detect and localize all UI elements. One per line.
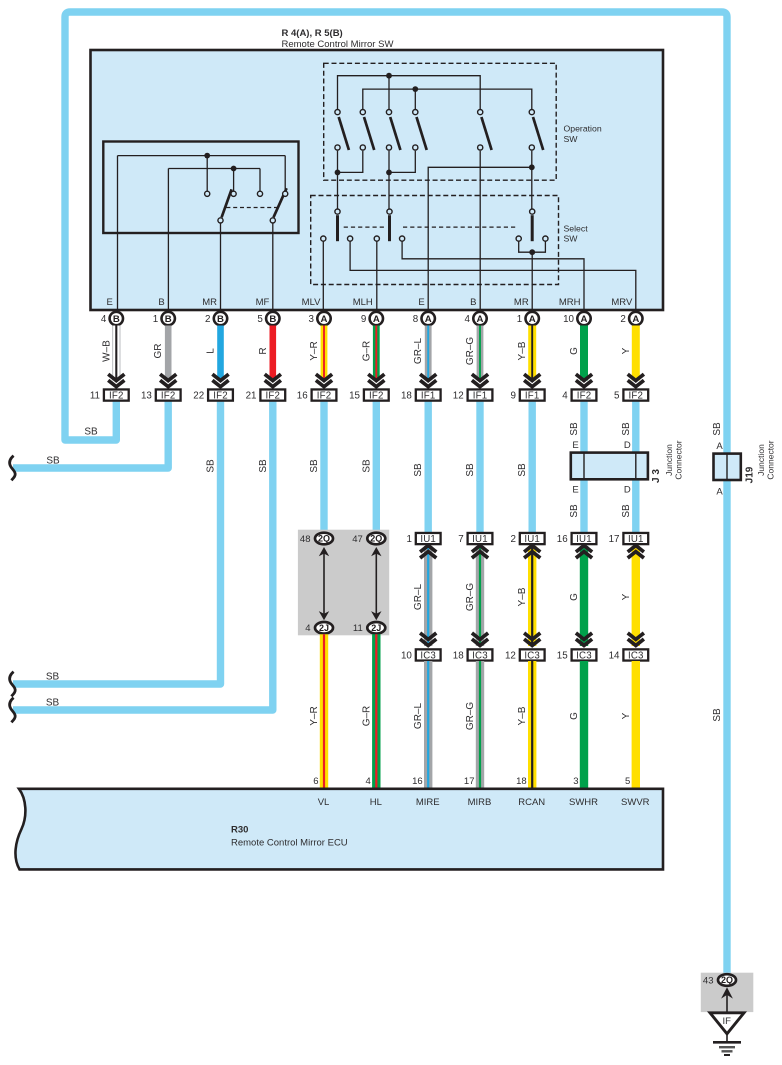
- connector arrow (chevron) into IF box: [108, 374, 124, 387]
- svg-text:MR: MR: [202, 297, 217, 308]
- select SW lower contact: [374, 236, 379, 241]
- svg-text:MRV: MRV: [611, 297, 633, 308]
- svg-text:2Q: 2Q: [721, 975, 733, 985]
- svg-text:HL: HL: [370, 797, 382, 808]
- svg-text:A: A: [632, 314, 639, 325]
- svg-text:A: A: [477, 314, 484, 325]
- contact point: [205, 191, 210, 196]
- svg-text:18: 18: [401, 391, 412, 402]
- wire SB from J3 pin E to IU1 pin 16: [580, 478, 587, 533]
- svg-text:IC3: IC3: [628, 650, 644, 661]
- svg-text:GR–G: GR–G: [465, 583, 476, 612]
- svg-text:2Q: 2Q: [370, 534, 382, 544]
- svg-text:47: 47: [352, 534, 363, 545]
- select SW lever 2 (vertical): [388, 215, 391, 241]
- svg-text:4: 4: [366, 776, 371, 787]
- svg-text:Operation: Operation: [564, 124, 602, 134]
- svg-text:MR: MR: [514, 297, 529, 308]
- junction dot op sw6 branch: [529, 164, 535, 170]
- junction dot on upper bus: [204, 153, 210, 159]
- select SW upper contact 2: [387, 209, 392, 214]
- svg-text:A: A: [581, 314, 588, 325]
- internal link arrow 2Q-48 to 2J-4: [323, 553, 325, 614]
- connector pin 4(B) of Remote Control Mirror SW: [110, 312, 123, 325]
- wire Y–R down to R30 ECU: [320, 634, 328, 790]
- connector 2Q pin 48: [315, 533, 333, 545]
- svg-text:IF2: IF2: [265, 391, 280, 402]
- select SW lower contact: [516, 236, 521, 241]
- svg-text:IF1: IF1: [525, 391, 540, 402]
- connector pin 8(A) of Remote Control Mirror SW: [422, 312, 435, 325]
- connector pin 2(A) of Remote Control Mirror SW: [629, 312, 642, 325]
- mechanical link dashed select 2: [403, 226, 518, 228]
- svg-text:A: A: [529, 314, 536, 325]
- connector 2Q pin 43: [718, 974, 736, 986]
- svg-text:21: 21: [246, 391, 257, 402]
- svg-text:GR–G: GR–G: [465, 337, 476, 366]
- svg-text:GR–L: GR–L: [413, 338, 424, 365]
- wire bus end down to contact: [259, 169, 261, 192]
- wire select contacts join to pin MR: [519, 241, 546, 252]
- connector arrow (chevron) into IF box: [628, 374, 644, 387]
- svg-text:2J: 2J: [371, 623, 381, 633]
- svg-text:D: D: [624, 440, 631, 451]
- svg-text:B: B: [470, 297, 476, 308]
- switch block: mirror select contact box: [103, 142, 298, 234]
- wire joining sw4 contact: [389, 151, 415, 173]
- svg-text:MLH: MLH: [353, 297, 373, 308]
- mechanical link dashed select 1: [344, 226, 385, 228]
- svg-text:8: 8: [413, 314, 419, 325]
- svg-text:R 4(A), R 5(B): R 4(A), R 5(B): [282, 28, 343, 39]
- connector arrow (chevron) into IF box: [160, 374, 176, 387]
- svg-text:12: 12: [453, 391, 464, 402]
- wire GR–L down to R30 ECU: [424, 661, 432, 790]
- component box R4(A)/R5(B) Remote Control Mirror SW: [91, 50, 664, 310]
- svg-text:G: G: [569, 712, 580, 720]
- wire op dot to select contact 1: [337, 172, 339, 208]
- wire op sw3 to junction: [388, 151, 390, 173]
- svg-text:SW: SW: [564, 134, 579, 144]
- wire GR–G from pin to connector: [477, 326, 484, 381]
- wire Y from pin to connector: [632, 326, 640, 381]
- wire SB from IF1 pin 9 to IU1 pin 2: [529, 402, 536, 534]
- connector transition box (gray) 2Q to 2J: [298, 530, 389, 636]
- connector IU1 pin 17: [609, 533, 649, 545]
- wire select contact routed to pin MRH: [402, 241, 584, 312]
- contact point: [283, 191, 288, 196]
- operation SW lower contact: [335, 145, 340, 150]
- connector IF1 pin 9: [510, 389, 544, 401]
- svg-text:Y–B: Y–B: [517, 341, 528, 360]
- svg-text:B: B: [158, 297, 164, 308]
- svg-text:Remote Control Mirror SW: Remote Control Mirror SW: [282, 39, 394, 50]
- svg-text:SB: SB: [569, 422, 580, 436]
- svg-text:J19: J19: [745, 466, 756, 483]
- svg-text:4: 4: [562, 391, 568, 402]
- svg-text:A: A: [716, 441, 723, 452]
- off-page break symbol on SB wire: [10, 698, 16, 723]
- svg-text:VL: VL: [318, 797, 330, 808]
- svg-text:3: 3: [573, 776, 578, 787]
- wire G from IU1 to IC3: [580, 546, 588, 646]
- svg-text:SWHR: SWHR: [569, 797, 598, 808]
- svg-text:B: B: [217, 314, 224, 325]
- wire Y–B down to R30 ECU: [528, 661, 536, 790]
- operation SW lower contact: [478, 145, 483, 150]
- svg-text:5: 5: [625, 776, 630, 787]
- connector arrow (chevron) out of IU1: [472, 546, 488, 559]
- wire Y–R from pin to connector: [321, 326, 328, 381]
- select SW upper contact 1: [335, 209, 340, 214]
- svg-text:2: 2: [510, 534, 515, 545]
- svg-text:IF2: IF2: [628, 391, 643, 402]
- svg-text:17: 17: [609, 534, 620, 545]
- junction dot on op bus 2: [412, 86, 418, 92]
- svg-text:Y: Y: [621, 712, 632, 719]
- connector 2J pin 11: [367, 622, 385, 634]
- svg-text:6: 6: [313, 776, 318, 787]
- wire GR–L from pin to connector: [425, 326, 432, 381]
- svg-text:1: 1: [153, 314, 158, 325]
- wire SB from J3 pin D to IU1 pin 17: [632, 478, 639, 533]
- connector arrow (chevron) into IC3: [524, 633, 540, 646]
- wire SB from IF2 pin 4 to junction connector J3 pin E: [580, 402, 587, 456]
- svg-text:SB: SB: [621, 422, 632, 436]
- svg-text:G: G: [569, 593, 580, 601]
- wire W–B from pin to connector: [113, 326, 120, 381]
- wire SB from IF2 pin 22 to off-page left: [13, 402, 221, 685]
- svg-text:MRH: MRH: [559, 297, 581, 308]
- connector arrow (chevron) out of IU1: [524, 546, 540, 559]
- wire GR–G down to R30 ECU: [476, 661, 484, 790]
- wire MR contact down to pin: [220, 223, 222, 312]
- junction dot on lower bus: [231, 166, 237, 172]
- internal link arrow 2Q-47 to 2J-11: [375, 553, 377, 614]
- svg-text:B: B: [165, 314, 172, 325]
- ground point IF (triangle): [710, 1013, 744, 1034]
- mechanical link dashed: [226, 207, 279, 209]
- svg-text:SB: SB: [712, 708, 723, 722]
- svg-text:4: 4: [101, 314, 107, 325]
- wire dot to contact: [206, 156, 208, 192]
- svg-text:GR–L: GR–L: [413, 703, 424, 730]
- svg-text:Y–B: Y–B: [517, 706, 528, 725]
- switch lever MR: [222, 189, 232, 217]
- junction dot op sw1/sw2: [335, 170, 341, 176]
- svg-text:RCAN: RCAN: [518, 797, 545, 808]
- svg-text:SB: SB: [258, 459, 269, 473]
- wire select junction to pin MR: [531, 252, 533, 312]
- svg-text:IF: IF: [722, 1016, 731, 1027]
- svg-text:E: E: [572, 485, 578, 496]
- wire Y–B from IU1 to IC3: [528, 546, 536, 646]
- svg-text:17: 17: [464, 776, 475, 787]
- svg-text:5: 5: [257, 314, 263, 325]
- wire bus to pin E: [117, 156, 119, 312]
- svg-text:2: 2: [205, 314, 210, 325]
- connector pin 10(A) of Remote Control Mirror SW: [577, 312, 590, 325]
- connector pin 3(A) of Remote Control Mirror SW: [317, 312, 330, 325]
- svg-text:A: A: [716, 487, 723, 498]
- svg-text:GR–L: GR–L: [413, 584, 424, 611]
- label Junction Connector (J19): [756, 440, 776, 479]
- connector IF2 pin 15: [349, 389, 389, 401]
- svg-text:SW: SW: [564, 234, 579, 244]
- svg-text:Y: Y: [621, 593, 632, 600]
- connector 2Q pin 47: [367, 533, 385, 545]
- operation SW lower contact: [529, 145, 534, 150]
- wire GR–G from IU1 to IC3: [476, 546, 484, 646]
- svg-text:G: G: [569, 347, 580, 355]
- wire G from pin to connector: [580, 326, 588, 381]
- svg-text:Select: Select: [564, 223, 589, 233]
- svg-text:MF: MF: [256, 297, 270, 308]
- wire SB from IF1 pin 18 to IU1 pin 1: [425, 402, 432, 534]
- connector pin 4(A) of Remote Control Mirror SW: [473, 312, 486, 325]
- junction dot on op bus 1: [386, 73, 392, 79]
- svg-text:MIRE: MIRE: [416, 797, 440, 808]
- svg-text:GR: GR: [153, 344, 164, 359]
- svg-text:G–R: G–R: [361, 706, 372, 727]
- wire dot to contact: [233, 169, 235, 192]
- connector IF1 pin 12: [453, 389, 493, 401]
- svg-text:IC3: IC3: [576, 650, 592, 661]
- bus wire upper in contact box: [118, 155, 286, 157]
- wire op sw6 down to select SW: [531, 151, 533, 209]
- wire select contact to pin MLH: [376, 241, 378, 312]
- connector arrow (chevron) into IF box: [212, 374, 228, 387]
- svg-text:11: 11: [90, 391, 100, 402]
- connector IF2 pin 22: [193, 389, 233, 401]
- connector pin 1(A) of Remote Control Mirror SW: [526, 312, 539, 325]
- connector IU1 pin 16: [557, 533, 597, 545]
- operation SW lower contact: [360, 145, 365, 150]
- switch group box: Select SW (dashed): [311, 196, 559, 285]
- operation SW switch lever: [533, 117, 543, 150]
- connector arrow (chevron) into IC3: [420, 633, 436, 646]
- label Select SW: [564, 223, 589, 243]
- wire SB from IF2 pin 15 to connector 2Q pin 47: [373, 402, 380, 534]
- svg-text:18: 18: [516, 776, 527, 787]
- wire GR from pin to connector: [165, 326, 172, 381]
- junction dot op sw3/sw4: [386, 170, 392, 176]
- connector arrow (chevron) into IF box: [316, 374, 332, 387]
- operation SW bus wire 1: [338, 76, 481, 109]
- svg-text:4: 4: [305, 623, 310, 634]
- connector IC3 pin 12: [505, 649, 545, 661]
- svg-text:D: D: [624, 485, 631, 496]
- svg-text:1: 1: [406, 534, 411, 545]
- svg-text:J 3: J 3: [651, 469, 662, 483]
- svg-text:18: 18: [453, 650, 464, 661]
- wire SB from IF2 pin 21 to off-page left: [13, 402, 273, 711]
- svg-text:2Q: 2Q: [318, 534, 330, 544]
- connector arrow (chevron) out of IU1: [420, 546, 436, 559]
- connector pin 2(B) of Remote Control Mirror SW: [214, 312, 227, 325]
- svg-text:12: 12: [505, 650, 516, 661]
- svg-text:Connector: Connector: [766, 440, 776, 479]
- connector IC3 pin 14: [609, 649, 649, 661]
- svg-text:E: E: [572, 440, 578, 451]
- operation SW upper contact: [335, 110, 340, 115]
- svg-text:16: 16: [297, 391, 308, 402]
- svg-text:10: 10: [563, 314, 574, 325]
- svg-text:IF2: IF2: [369, 391, 384, 402]
- svg-text:R: R: [258, 347, 269, 354]
- wire op bus2 dot to contact: [414, 89, 416, 109]
- operation SW upper contact: [360, 110, 365, 115]
- svg-text:13: 13: [141, 391, 152, 402]
- wire joining sw2 contact: [338, 151, 363, 173]
- svg-text:IF1: IF1: [473, 391, 488, 402]
- operation SW switch lever: [339, 117, 349, 150]
- connector IF2 pin 16: [297, 389, 337, 401]
- connector IF2 pin 21: [246, 389, 286, 401]
- connector arrow (chevron) out of IU1: [576, 546, 592, 559]
- svg-text:IF1: IF1: [421, 391, 436, 402]
- svg-text:15: 15: [349, 391, 360, 402]
- svg-text:Junction: Junction: [664, 444, 674, 476]
- wire SB from IF2 pin 13 to off-page left: [13, 402, 168, 469]
- select SW upper contact 3: [530, 209, 535, 214]
- svg-text:16: 16: [412, 776, 423, 787]
- svg-text:G–R: G–R: [361, 341, 372, 362]
- wire SB ground net: IF2 pin 11 up over page border to junction J19 and bottom 2Q: [65, 12, 727, 974]
- svg-text:SB: SB: [46, 456, 60, 467]
- bus wire lower in contact box: [168, 168, 260, 170]
- connector arrow (chevron) into IF box: [368, 374, 384, 387]
- contact point: [231, 191, 236, 196]
- svg-text:10: 10: [401, 650, 412, 661]
- svg-text:SB: SB: [361, 459, 372, 473]
- select SW lever 1 (vertical): [336, 215, 339, 241]
- svg-text:A: A: [321, 314, 328, 325]
- connector IF2 pin 4: [562, 389, 596, 401]
- svg-text:5: 5: [614, 391, 620, 402]
- connector arrow (chevron) into IF box: [524, 374, 540, 387]
- svg-text:3: 3: [309, 314, 315, 325]
- svg-text:SWVR: SWVR: [621, 797, 650, 808]
- svg-text:Y: Y: [621, 347, 632, 354]
- connector 2J pin 4: [315, 622, 333, 634]
- wire op bus1 dot to contact: [388, 76, 390, 109]
- connector IC3 pin 10: [401, 649, 441, 661]
- svg-text:16: 16: [557, 534, 568, 545]
- svg-text:IC3: IC3: [524, 650, 540, 661]
- wire G–R down to R30 ECU: [372, 634, 380, 790]
- select SW lower contact: [321, 236, 326, 241]
- svg-text:IC3: IC3: [420, 650, 436, 661]
- svg-text:B: B: [113, 314, 120, 325]
- wire G down to R30 ECU: [580, 661, 588, 790]
- svg-text:GR–G: GR–G: [465, 702, 476, 731]
- svg-text:IF2: IF2: [213, 391, 228, 402]
- svg-text:B: B: [269, 314, 276, 325]
- svg-text:Connector: Connector: [674, 440, 684, 479]
- wire SB from IF1 pin 12 to IU1 pin 7: [476, 402, 483, 534]
- operation SW upper contact: [413, 110, 418, 115]
- wire select contact to pin MLV: [322, 241, 324, 312]
- wire op sw6 branch to pin E: [428, 167, 532, 312]
- svg-text:E: E: [418, 297, 424, 308]
- operation SW switch lever: [481, 117, 491, 150]
- svg-text:SB: SB: [517, 463, 528, 477]
- switch pivot contact MR: [218, 218, 223, 223]
- wire G–R from pin to connector: [373, 326, 380, 381]
- connector arrow (chevron) into IF box: [420, 374, 436, 387]
- svg-text:Y–R: Y–R: [309, 341, 320, 360]
- svg-text:SB: SB: [569, 504, 580, 518]
- svg-text:4: 4: [465, 314, 471, 325]
- connector arrow (chevron) into IC3: [576, 633, 592, 646]
- label Junction Connector (J3): [664, 440, 684, 479]
- operation SW lower contact: [413, 145, 418, 150]
- svg-text:IF2: IF2: [317, 391, 332, 402]
- svg-text:W–B: W–B: [101, 340, 112, 362]
- svg-text:11: 11: [353, 623, 363, 634]
- select SW lower contact: [400, 236, 405, 241]
- svg-text:Junction: Junction: [756, 444, 766, 476]
- connector IC3 pin 15: [557, 649, 597, 661]
- svg-text:SB: SB: [84, 427, 98, 438]
- svg-text:E: E: [106, 297, 112, 308]
- switch lever MF: [274, 188, 287, 217]
- svg-text:MIRB: MIRB: [468, 797, 492, 808]
- connector arrow (chevron) into IF box: [576, 374, 592, 387]
- svg-text:1: 1: [517, 314, 522, 325]
- svg-text:MLV: MLV: [302, 297, 321, 308]
- connector pin 5(B) of Remote Control Mirror SW: [266, 312, 279, 325]
- svg-text:R30: R30: [231, 825, 248, 836]
- switch pivot contact MF: [270, 218, 275, 223]
- operation SW switch lever: [364, 117, 374, 150]
- connector arrow (chevron) into IC3: [472, 633, 488, 646]
- connector IU1 pin 2: [510, 533, 544, 545]
- connector IU1 pin 7: [458, 533, 492, 545]
- svg-text:15: 15: [557, 650, 568, 661]
- wire Y down to R30 ECU: [632, 661, 640, 790]
- off-page break symbol on SB wire: [10, 672, 16, 697]
- svg-text:IF2: IF2: [109, 391, 124, 402]
- svg-text:9: 9: [510, 391, 515, 402]
- svg-text:2J: 2J: [319, 623, 329, 633]
- svg-text:SB: SB: [46, 698, 60, 709]
- svg-text:Remote Control Mirror ECU: Remote Control Mirror ECU: [231, 838, 348, 849]
- connector IF2 pin 11: [90, 389, 129, 401]
- svg-text:2: 2: [620, 314, 625, 325]
- wire SB from IF2 pin 5 to junction connector J3 pin D: [632, 402, 639, 456]
- svg-text:9: 9: [361, 314, 366, 325]
- wire op sw5 contact down to pin B: [479, 151, 481, 312]
- svg-text:14: 14: [609, 650, 620, 661]
- svg-text:IF2: IF2: [161, 391, 176, 402]
- contact point: [257, 191, 262, 196]
- svg-text:IF2: IF2: [577, 391, 592, 402]
- operation SW upper contact: [478, 110, 483, 115]
- switch group box: Operation SW (dashed): [324, 63, 557, 180]
- svg-text:SB: SB: [413, 463, 424, 477]
- svg-text:SB: SB: [309, 459, 320, 473]
- wire op sw1 to junction: [337, 151, 339, 173]
- connector IF1 pin 18: [401, 389, 441, 401]
- component box R30 Remote Control Mirror ECU (torn left edge): [15, 789, 663, 870]
- wire L from pin to connector: [217, 326, 224, 381]
- svg-text:A: A: [425, 314, 432, 325]
- connector IC3 pin 18: [453, 649, 493, 661]
- junction connector J3: [571, 453, 648, 480]
- connector pin 1(B) of Remote Control Mirror SW: [162, 312, 175, 325]
